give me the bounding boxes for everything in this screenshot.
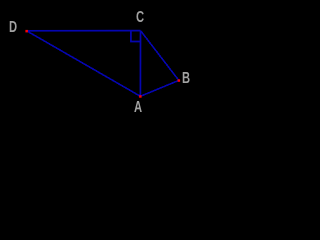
wire segment D-A: [27, 31, 141, 97]
node A: [139, 95, 142, 98]
wire segment A-B: [140, 80, 178, 96]
label A: [134, 100, 142, 116]
label B: [182, 71, 190, 87]
wire segment C-A: [139, 31, 141, 97]
label C: [136, 10, 144, 26]
wire segment D-C: [27, 30, 141, 32]
wire segment C-B: [141, 31, 179, 81]
label D: [9, 20, 17, 36]
node B: [178, 79, 181, 82]
node D: [25, 30, 28, 33]
right angle marker at C: [131, 31, 141, 42]
